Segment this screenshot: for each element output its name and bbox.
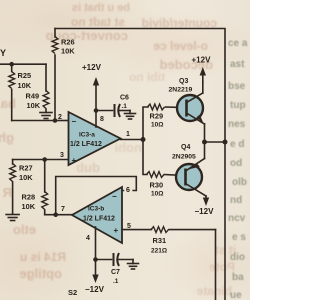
wire output A — [121, 139, 144, 141]
wire to R29 — [143, 107, 148, 140]
resistor R30 — [147, 172, 186, 198]
node pin3 junction — [42, 157, 47, 162]
wire pin6 feedback loop — [56, 177, 137, 215]
svg-text:IC3-b: IC3-b — [88, 206, 104, 213]
svg-text:Q4: Q4 — [181, 144, 190, 151]
svg-text:.1: .1 — [113, 278, 119, 285]
svg-text:2: 2 — [58, 114, 62, 121]
wire pin4 — [95, 227, 97, 260]
node emitter junction — [202, 140, 207, 145]
resistor R49 — [26, 64, 49, 112]
svg-text:Y: Y — [0, 48, 6, 58]
svg-text:−: − — [112, 192, 117, 201]
wire pin7 output — [45, 214, 72, 216]
svg-text:4: 4 — [86, 235, 90, 242]
svg-text:+: + — [114, 226, 119, 235]
node pin2 junction — [53, 118, 58, 123]
svg-text:R29: R29 — [150, 112, 164, 121]
node pin4 junction — [93, 257, 98, 262]
node Y junction — [9, 62, 14, 67]
wire Q3 emitter down — [204, 124, 206, 142]
svg-text:8: 8 — [100, 116, 104, 123]
ground under R49 — [40, 113, 52, 119]
capacitor C7 — [96, 253, 134, 285]
svg-text:R30: R30 — [150, 181, 164, 190]
resistor R31 — [151, 227, 216, 255]
wire Y input — [0, 63, 46, 65]
svg-text:IC3-a: IC3-a — [79, 132, 95, 139]
resistor R26 — [52, 29, 75, 121]
resistor R28 — [22, 160, 48, 215]
svg-text:10Ω: 10Ω — [151, 122, 163, 129]
svg-text:.1: .1 — [122, 103, 128, 110]
transistor Q3 — [169, 78, 205, 124]
svg-text:3: 3 — [60, 152, 64, 159]
svg-text:10K: 10K — [18, 81, 32, 90]
resistor R27 — [10, 160, 34, 215]
capacitor C6 — [96, 95, 130, 118]
node pin7 junction — [53, 212, 58, 217]
wire emitter to feedback — [205, 141, 226, 143]
supply -12V at pin4 — [85, 260, 105, 295]
svg-text:1: 1 — [126, 131, 130, 138]
svg-text:R25: R25 — [18, 71, 32, 80]
svg-text:221Ω: 221Ω — [151, 248, 167, 255]
wire feedback top — [55, 29, 225, 143]
supply +12V at pin 8 — [82, 63, 104, 127]
node output junction — [141, 137, 146, 142]
svg-text:−: − — [72, 117, 77, 126]
svg-text:10K: 10K — [19, 173, 33, 182]
resistor R29 — [148, 104, 187, 128]
ground at C7 — [128, 260, 139, 270]
wire pin5 — [122, 229, 152, 231]
svg-text:+12V: +12V — [192, 56, 212, 65]
svg-text:+12V: +12V — [82, 63, 102, 72]
resistor R25 — [9, 64, 32, 120]
wire output bus down — [224, 142, 226, 300]
wire Q4 emitter up — [204, 142, 206, 159]
svg-text:2N2219: 2N2219 — [169, 87, 193, 94]
svg-text:6: 6 — [126, 187, 130, 194]
supply +12V at Q3 — [192, 56, 212, 83]
svg-text:1/2 LF412: 1/2 LF412 — [83, 216, 115, 223]
wire Q3 collector — [202, 82, 204, 93]
svg-text:10K: 10K — [27, 101, 41, 110]
wire R31 output down — [215, 230, 217, 300]
svg-text:7: 7 — [61, 206, 65, 213]
svg-text:R27: R27 — [19, 164, 33, 173]
node pin8 junction — [94, 108, 99, 113]
svg-text:S2: S2 — [68, 288, 77, 297]
op-amp IC3-a — [69, 112, 121, 165]
op-amp IC3-b — [72, 187, 122, 243]
svg-text:5: 5 — [127, 223, 131, 230]
ghost show-through text (decorative) — [22, 2, 130, 14]
svg-text:Q3: Q3 — [179, 78, 188, 85]
svg-text:1/2 LF412: 1/2 LF412 — [70, 141, 102, 148]
svg-text:R31: R31 — [153, 236, 167, 245]
transistor Q4 — [172, 144, 206, 196]
svg-text:C7: C7 — [111, 269, 120, 276]
ground at C6 — [125, 111, 136, 120]
pin 6 label — [124, 185, 132, 194]
svg-text:R26: R26 — [61, 38, 75, 47]
wire pin3 node — [13, 159, 69, 161]
svg-text:R49: R49 — [26, 92, 40, 101]
wire pin2 — [55, 120, 69, 122]
wire to R30 — [143, 140, 147, 175]
svg-text:−12V: −12V — [195, 207, 215, 216]
svg-text:2N2905: 2N2905 — [172, 154, 196, 161]
svg-text:+: + — [72, 156, 77, 165]
wire R25 to pin2 node — [12, 120, 55, 122]
svg-text:10K: 10K — [61, 47, 75, 56]
svg-text:10Ω: 10Ω — [151, 191, 163, 198]
node feedback junction — [223, 140, 228, 145]
svg-text:10K: 10K — [22, 202, 36, 211]
adjacent column text fragments (decorative) — [228, 38, 247, 49]
svg-text:−12V: −12V — [85, 285, 105, 294]
svg-text:C6: C6 — [120, 95, 129, 102]
supply -12V at Q4 — [195, 196, 215, 216]
ground under R27 — [6, 215, 19, 221]
paper tint patches (decorative) — [0, 0, 250, 300]
svg-text:R28: R28 — [22, 193, 36, 202]
